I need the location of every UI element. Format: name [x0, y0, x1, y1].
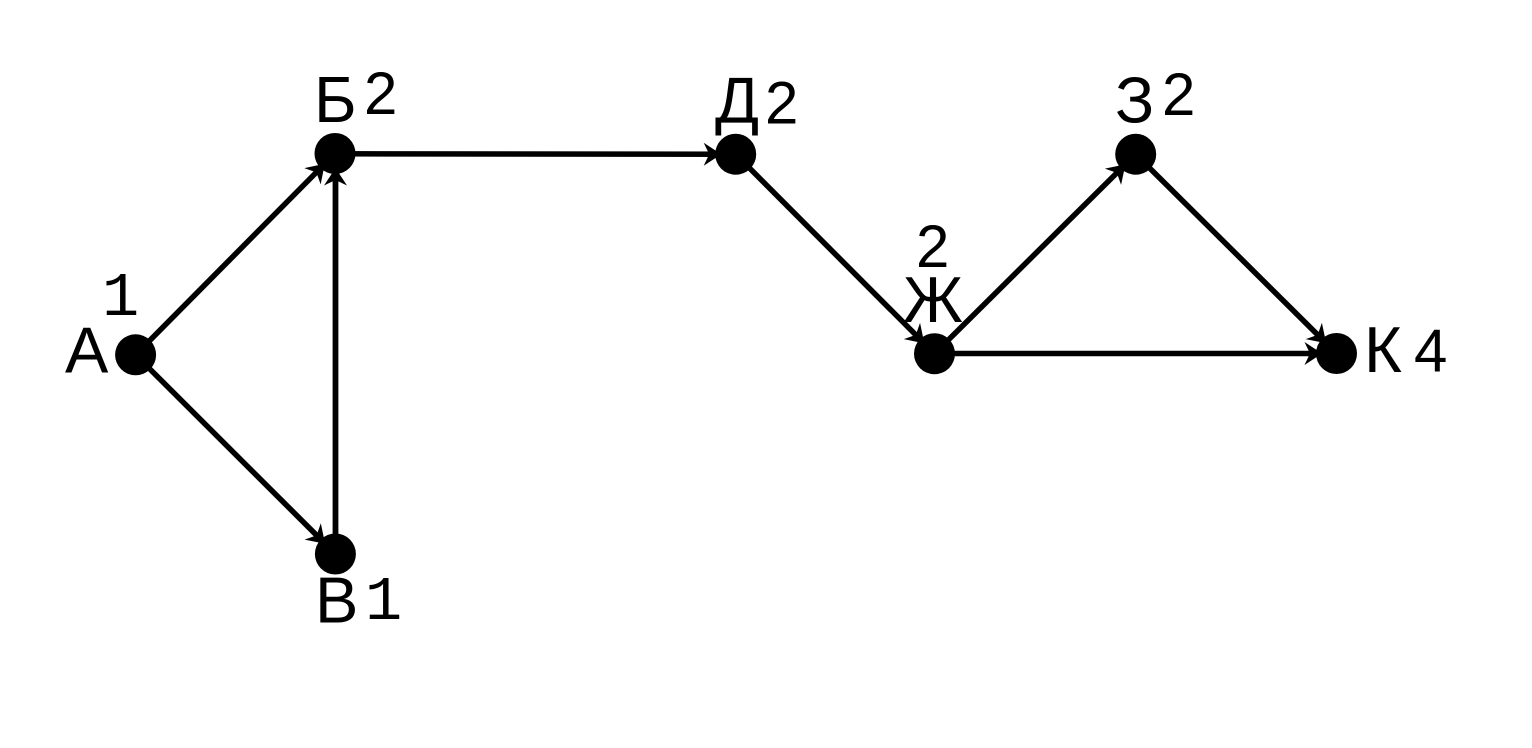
svg-text:Д: Д [715, 63, 759, 136]
wire edge V-B [333, 154, 339, 555]
node K [1316, 333, 1357, 374]
svg-text:Б: Б [314, 63, 357, 136]
arrowhead Zh-K at K [1305, 342, 1323, 365]
wire edge B-D [335, 151, 736, 157]
wire edge Zh-Z [935, 154, 1136, 354]
svg-text:4: 4 [1414, 318, 1447, 385]
svg-text:1: 1 [365, 567, 402, 638]
node A [115, 334, 156, 375]
svg-text:2: 2 [1162, 61, 1195, 128]
wire edge D-Zh [736, 154, 935, 354]
node V [315, 534, 356, 575]
svg-text:В: В [315, 564, 358, 637]
arrowhead V-B at B [324, 168, 347, 186]
svg-text:2: 2 [916, 213, 949, 280]
node Z [1115, 134, 1156, 175]
wire edge Zh-K [935, 351, 1337, 357]
arrowhead A-B at B [304, 156, 333, 185]
arrowhead B-D at D [704, 143, 722, 166]
arrowhead A-V at V [305, 523, 334, 552]
svg-text:З: З [1115, 64, 1154, 137]
arrowhead Z-K at K [1306, 323, 1335, 352]
svg-text:1: 1 [102, 263, 139, 334]
svg-text:2: 2 [765, 69, 798, 136]
node Zh [914, 333, 955, 374]
arrowhead Zh-Z at Z [1105, 156, 1134, 185]
wire edge A-V [136, 355, 336, 554]
arrowhead D-Zh at Zh [904, 323, 933, 352]
wire edge A-B [136, 154, 335, 355]
wire edge Z-K [1136, 154, 1337, 353]
svg-text:2: 2 [364, 60, 397, 127]
node D [715, 134, 756, 175]
svg-text:К: К [1364, 313, 1402, 386]
node B [315, 133, 356, 174]
